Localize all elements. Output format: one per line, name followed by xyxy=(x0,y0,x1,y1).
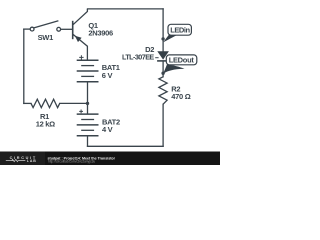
resistor R1 xyxy=(31,99,60,107)
wire top horizontal xyxy=(88,8,164,10)
wire left vertical xyxy=(23,29,25,103)
svg-text:6 V: 6 V xyxy=(102,71,113,80)
resistor R2 xyxy=(159,77,167,104)
svg-text:SW1: SW1 xyxy=(38,33,53,42)
svg-text:12 kΩ: 12 kΩ xyxy=(36,120,55,129)
svg-text:LTL-307EE: LTL-307EE xyxy=(122,52,154,61)
svg-text:LAB: LAB xyxy=(27,159,37,163)
svg-text:4 V: 4 V xyxy=(102,125,113,134)
svg-text:LEDin: LEDin xyxy=(170,26,190,35)
node dot LEDout xyxy=(161,72,164,75)
logo CIRCUIT LAB xyxy=(6,156,37,163)
flag LEDin xyxy=(163,24,191,42)
wire BAT1 bottom to junction xyxy=(87,82,89,104)
wire R2 bottom to corner xyxy=(162,104,164,146)
switch SW1 xyxy=(30,21,60,31)
battery BAT1 xyxy=(77,55,99,82)
footer bar xyxy=(0,152,220,166)
wire BAT2 bottom stub xyxy=(87,136,89,147)
svg-text:http://circuitlab.com/c6rc2any: http://circuitlab.com/c6rc2anyjc3u xyxy=(48,160,95,164)
wire right vertical top xyxy=(162,9,164,52)
flag LEDout xyxy=(163,55,197,74)
wire base lead xyxy=(61,28,73,30)
wire bottom horizontal xyxy=(88,145,164,147)
wire R1 left lead xyxy=(24,102,31,104)
node junction dot left xyxy=(86,102,89,105)
transistor Q1 xyxy=(73,9,88,60)
svg-text:LEDout: LEDout xyxy=(169,56,195,65)
battery BAT2 xyxy=(77,103,99,135)
wire R1 right lead to junction xyxy=(60,102,88,104)
svg-text:470 Ω: 470 Ω xyxy=(171,92,190,101)
wire LED cathode to R2 xyxy=(162,61,164,77)
LED D2 xyxy=(155,51,169,61)
node dot LEDin xyxy=(161,37,164,40)
svg-text:2N3906: 2N3906 xyxy=(88,29,113,38)
wire SW1 left lead xyxy=(24,28,30,30)
